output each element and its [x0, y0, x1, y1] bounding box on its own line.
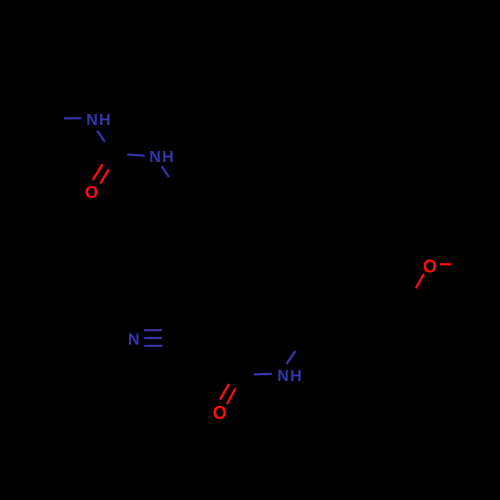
svg-text:N: N	[128, 332, 140, 349]
svg-text:NH: NH	[86, 112, 112, 129]
svg-text:O: O	[213, 403, 227, 423]
svg-text:NH: NH	[277, 368, 303, 385]
svg-text:O: O	[423, 256, 437, 276]
svg-text:O: O	[85, 182, 98, 202]
svg-text:NH: NH	[149, 149, 175, 166]
